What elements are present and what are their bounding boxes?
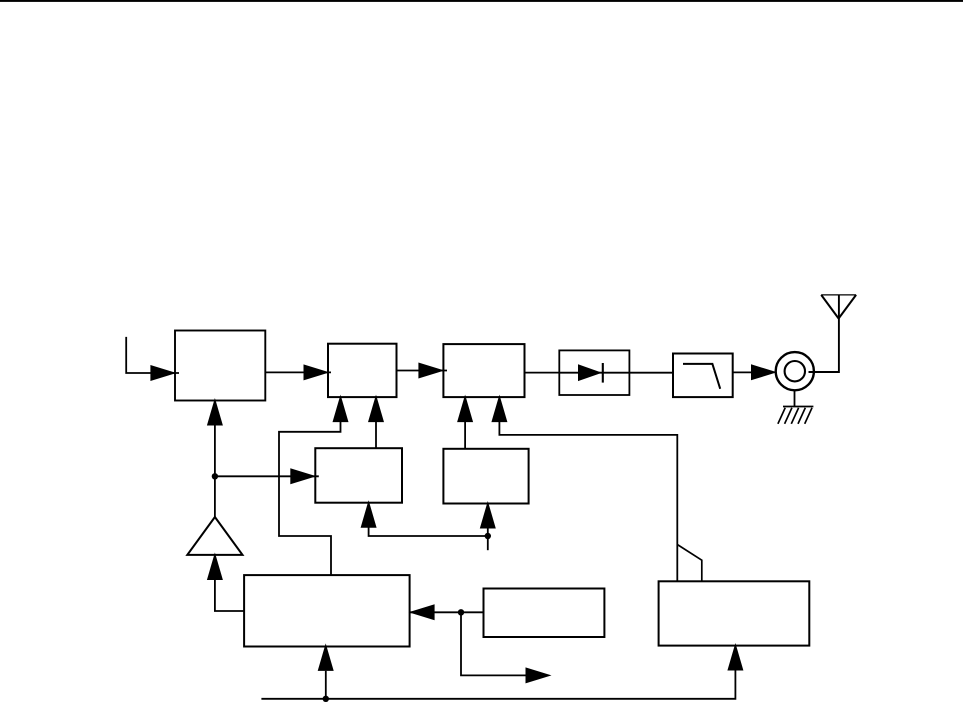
wire: connector J1 to antenna	[809, 296, 839, 373]
wire: node B up into U5 with arrow	[480, 501, 496, 536]
wire: U7 to U6 with arrow	[409, 604, 484, 620]
block U4 (divider 1)	[315, 448, 402, 503]
wire: bus up into U6 with arrow	[318, 643, 334, 698]
block U5 (divider 2)	[443, 449, 528, 504]
block U8 (control logic)	[659, 581, 810, 645]
wire: node A to U4 with arrow	[215, 468, 319, 484]
ground	[778, 407, 814, 424]
wire: U6 feedback up into U2 with arrow	[279, 395, 349, 575]
wire: U3 to detector D1	[525, 372, 560, 374]
block U7 (reference oscillator)	[484, 589, 605, 638]
wire: U1 to U2 with arrow	[265, 364, 331, 380]
antenna E1	[821, 295, 856, 319]
wire: LO feed up into U1 with arrow	[207, 398, 223, 517]
wire: U8 tap up into U3 with arrow	[491, 395, 677, 582]
wire: U2 to U3 with arrow	[397, 363, 448, 379]
wire: node C branch with arrow right	[461, 612, 552, 683]
wire: U4 up into U2 with arrow	[368, 395, 384, 449]
wire: bottom bus	[261, 670, 735, 699]
RF connector J1	[776, 352, 814, 390]
block U2 (mixer 1)	[328, 344, 397, 397]
node C (junction dot)	[458, 609, 464, 615]
wire: connector J1 stem to ground	[794, 390, 796, 406]
node B (junction dot with stub)	[485, 533, 491, 550]
buffer amplifier A1	[187, 517, 242, 555]
block U3 (mixer 2)	[443, 344, 524, 397]
block U6 (PLL synthesizer)	[244, 575, 410, 646]
diode detector D1	[559, 350, 629, 395]
block U1 (RF input stage)	[175, 331, 265, 401]
low-pass filter FL1	[673, 354, 733, 398]
wire: U5 up into U3 with arrow	[457, 395, 473, 449]
wire: RF input with arrow into U1	[126, 337, 179, 381]
wire: reference up into U4 with arrow	[361, 500, 488, 536]
wire: bus up into U8 with arrow	[727, 643, 743, 671]
wire: U6 output up into A1 with arrow	[207, 553, 245, 612]
wire: filter FL1 to connector J1 with arrow	[733, 364, 777, 380]
wire: detector D1 to filter FL1	[629, 372, 673, 374]
tap symbol on U8 top	[677, 545, 702, 582]
node D (junction dot on bus)	[323, 696, 329, 702]
node A (junction dot)	[212, 473, 218, 479]
